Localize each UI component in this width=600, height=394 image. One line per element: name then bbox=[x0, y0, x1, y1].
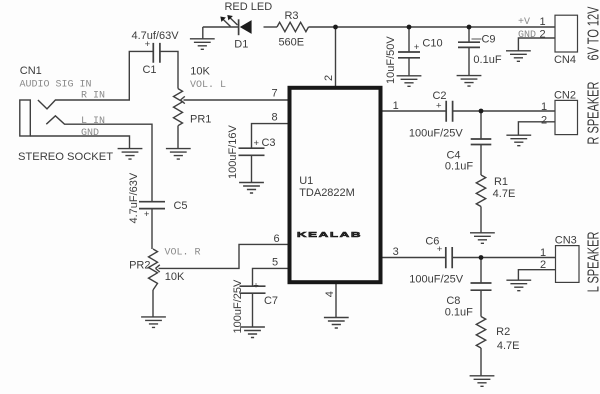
svg-text:RED LED: RED LED bbox=[224, 1, 272, 13]
svg-text:+: + bbox=[437, 244, 443, 255]
svg-text:CN4: CN4 bbox=[554, 54, 576, 66]
svg-text:GND: GND bbox=[518, 30, 536, 41]
svg-text:+V: +V bbox=[518, 17, 530, 28]
svg-text:100uF/16V: 100uF/16V bbox=[227, 125, 239, 179]
svg-text:R IN: R IN bbox=[81, 91, 105, 102]
svg-text:2: 2 bbox=[541, 114, 547, 126]
svg-text:VOL. L: VOL. L bbox=[190, 80, 226, 91]
svg-text:L IN: L IN bbox=[81, 116, 105, 127]
svg-text:PR2: PR2 bbox=[129, 259, 150, 271]
svg-text:C3: C3 bbox=[261, 137, 275, 149]
svg-text:TDA2822M: TDA2822M bbox=[299, 187, 355, 199]
svg-text:CN2: CN2 bbox=[554, 90, 576, 102]
svg-text:+: + bbox=[254, 138, 260, 149]
svg-text:2: 2 bbox=[539, 29, 545, 41]
svg-text:0.1uF: 0.1uF bbox=[445, 160, 473, 172]
svg-text:6V TO 12V: 6V TO 12V bbox=[584, 7, 600, 61]
svg-text:3: 3 bbox=[393, 246, 399, 258]
svg-text:100uF/25V: 100uF/25V bbox=[232, 279, 244, 333]
svg-text:C9: C9 bbox=[481, 34, 495, 46]
svg-text:5: 5 bbox=[272, 257, 278, 269]
svg-text:GND: GND bbox=[81, 128, 99, 139]
svg-text:0.1uF: 0.1uF bbox=[473, 54, 501, 66]
svg-text:STEREO SOCKET: STEREO SOCKET bbox=[18, 151, 113, 163]
svg-text:2: 2 bbox=[323, 75, 335, 81]
svg-text:1: 1 bbox=[539, 16, 545, 28]
svg-text:PR1: PR1 bbox=[190, 114, 211, 126]
svg-text:1: 1 bbox=[541, 101, 547, 113]
svg-text:1: 1 bbox=[540, 247, 546, 259]
svg-text:1: 1 bbox=[393, 100, 399, 112]
svg-text:4.7uf/63V: 4.7uf/63V bbox=[131, 30, 179, 42]
svg-text:+: + bbox=[436, 101, 442, 112]
svg-text:560E: 560E bbox=[278, 37, 304, 49]
svg-text:4: 4 bbox=[324, 291, 336, 297]
svg-text:+: + bbox=[414, 42, 420, 53]
svg-text:L SPEAKER: L SPEAKER bbox=[585, 231, 600, 292]
svg-text:CN1: CN1 bbox=[20, 65, 42, 77]
svg-text:R2: R2 bbox=[496, 326, 510, 338]
svg-text:10K: 10K bbox=[165, 271, 185, 283]
svg-text:6: 6 bbox=[273, 233, 279, 245]
svg-text:+: + bbox=[145, 39, 151, 50]
svg-text:C7: C7 bbox=[264, 295, 278, 307]
svg-text:R SPEAKER: R SPEAKER bbox=[584, 81, 600, 144]
svg-text:+: + bbox=[253, 280, 259, 291]
svg-text:10uF/50V: 10uF/50V bbox=[385, 36, 397, 84]
svg-text:10K: 10K bbox=[190, 66, 210, 78]
svg-text:R3: R3 bbox=[284, 10, 298, 22]
svg-text:4.7E: 4.7E bbox=[497, 340, 520, 352]
svg-text:100uF/25V: 100uF/25V bbox=[409, 273, 463, 285]
svg-text:CN3: CN3 bbox=[555, 235, 577, 247]
svg-text:C10: C10 bbox=[422, 38, 442, 50]
svg-text:C8: C8 bbox=[446, 295, 460, 307]
svg-text:2: 2 bbox=[540, 259, 546, 271]
svg-text:KEALAB: KEALAB bbox=[297, 231, 362, 239]
svg-text:+: + bbox=[144, 209, 150, 220]
svg-text:4.7uF/63V: 4.7uF/63V bbox=[128, 172, 140, 223]
svg-text:100uF/25V: 100uF/25V bbox=[409, 127, 463, 139]
svg-text:D1: D1 bbox=[234, 38, 248, 50]
svg-text:C1: C1 bbox=[142, 64, 156, 76]
svg-text:AUDIO SIG IN: AUDIO SIG IN bbox=[20, 79, 92, 90]
svg-text:8: 8 bbox=[271, 112, 277, 124]
svg-text:U1: U1 bbox=[299, 175, 313, 187]
svg-text:0.1uF: 0.1uF bbox=[445, 307, 473, 319]
svg-text:7: 7 bbox=[271, 87, 277, 99]
svg-text:VOL. R: VOL. R bbox=[165, 247, 201, 258]
svg-text:4.7E: 4.7E bbox=[493, 188, 516, 200]
svg-text:R1: R1 bbox=[494, 176, 508, 188]
svg-text:C5: C5 bbox=[173, 200, 187, 212]
